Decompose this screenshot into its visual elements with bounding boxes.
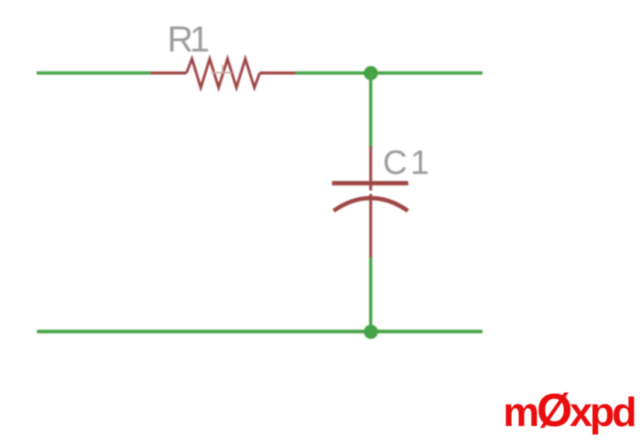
wire vertical upper net segment: [369, 73, 372, 148]
svg-text:mØxpd: mØxpd: [503, 384, 635, 436]
wire vertical lower net segment: [369, 257, 372, 332]
wire bottom net segment: [37, 330, 483, 333]
capacitor C1: [332, 146, 408, 258]
wire top-right net segment: [295, 71, 483, 74]
node junction bottom: [364, 325, 378, 339]
wire top-left net segment: [37, 71, 152, 74]
svg-text:R1: R1: [167, 18, 208, 59]
node junction top: [364, 66, 378, 80]
svg-text:C1: C1: [383, 144, 432, 182]
resistor R1: [151, 59, 297, 88]
